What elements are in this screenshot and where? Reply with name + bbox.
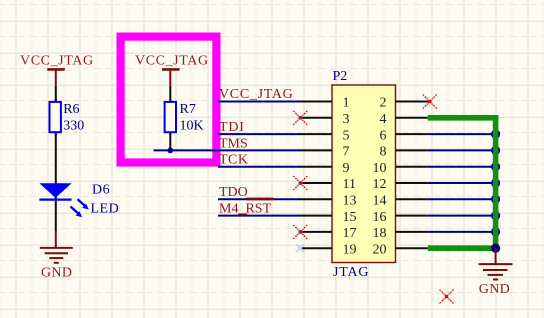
svg-text:JTAG: JTAG <box>333 265 369 280</box>
junction pin 12 bus <box>491 178 500 187</box>
junction GND bus bottom <box>491 244 500 253</box>
svg-text:TCK: TCK <box>219 153 249 168</box>
pin 9 stub <box>300 166 332 168</box>
pin 19 stub <box>296 244 332 252</box>
svg-text:11: 11 <box>343 177 356 192</box>
svg-text:GND: GND <box>41 265 72 280</box>
wire VCC_JTAG net <box>218 101 301 103</box>
no-ERC marker pin 2 <box>423 95 437 109</box>
svg-text:VCC_JTAG: VCC_JTAG <box>135 54 209 69</box>
wire pin 10 to GND bus <box>428 166 497 168</box>
svg-text:VCC_JTAG: VCC_JTAG <box>20 54 94 69</box>
svg-text:10: 10 <box>373 161 387 176</box>
wire pin 8 to GND bus <box>428 149 497 151</box>
wire pin 18 to GND bus <box>428 231 497 233</box>
svg-text:7: 7 <box>343 145 350 160</box>
pin 20 stub <box>396 247 428 249</box>
pin 13 stub <box>300 198 332 200</box>
pin 18 stub <box>396 231 428 233</box>
no-ERC marker (isolated, bottom right) <box>440 290 454 304</box>
svg-text:9: 9 <box>343 161 350 176</box>
resistor R7 <box>165 99 204 135</box>
no-ERC marker pin 17 <box>293 225 307 239</box>
junction TMS pull-up <box>167 148 173 154</box>
wire pin 16 to GND bus <box>428 215 497 217</box>
pin 6 stub <box>396 133 428 135</box>
wire TMS net <box>154 149 301 151</box>
junction pin 8 bus <box>491 146 500 155</box>
svg-text:R7: R7 <box>180 102 196 117</box>
svg-text:5: 5 <box>343 128 350 143</box>
power port VCC_JTAG (pull-up branch) <box>135 54 209 86</box>
junction pin 14 bus <box>491 195 500 204</box>
svg-text:16: 16 <box>373 210 387 225</box>
wire pin 14 to GND bus <box>428 198 497 200</box>
wire pin 4 to GND bus (green) <box>428 115 499 121</box>
pin 8 stub <box>396 149 428 151</box>
svg-text:17: 17 <box>343 226 357 241</box>
resistor R6 <box>50 99 85 135</box>
no-ERC marker pin 11 <box>293 176 307 190</box>
wire pin 20 to GND bus (green) <box>428 245 496 251</box>
svg-text:20: 20 <box>373 242 387 257</box>
junction pin 10 bus <box>491 162 500 171</box>
svg-text:TDO: TDO <box>219 185 248 200</box>
svg-text:R6: R6 <box>63 102 79 117</box>
pin 10 stub <box>396 166 428 168</box>
wire GND bus vertical (green) <box>493 115 499 248</box>
svg-text:14: 14 <box>373 194 387 209</box>
svg-text:13: 13 <box>343 194 357 209</box>
svg-text:330: 330 <box>63 119 84 134</box>
svg-text:8: 8 <box>380 145 387 160</box>
connector P2 body <box>332 69 396 280</box>
svg-text:1: 1 <box>343 96 350 111</box>
pin 14 stub <box>396 198 428 200</box>
svg-text:2: 2 <box>380 96 387 111</box>
wire R7 to TMS junction <box>169 133 171 150</box>
junction pin 6 bus <box>491 130 500 139</box>
wire TDI net <box>218 133 301 135</box>
wire pin 12 to GND bus <box>428 182 497 184</box>
highlight box (magenta selection rectangle) <box>121 37 217 163</box>
wire VCC to R6 <box>55 86 57 102</box>
pin 4 stub <box>396 117 428 119</box>
svg-text:12: 12 <box>373 177 387 192</box>
svg-text:P2: P2 <box>333 69 348 84</box>
wire M4_RST net <box>218 214 301 216</box>
pin 7 stub <box>300 149 332 151</box>
pin 5 stub <box>300 133 332 135</box>
svg-text:4: 4 <box>380 112 387 127</box>
svg-text:GND: GND <box>479 282 510 297</box>
wire R6 to D6 <box>55 133 57 184</box>
pin 11 stub <box>300 182 332 184</box>
pin 17 stub <box>300 231 332 233</box>
junction pin 16 bus <box>491 211 500 220</box>
svg-text:VCC_JTAG: VCC_JTAG <box>219 87 294 102</box>
wire TDO net <box>218 198 301 201</box>
svg-text:10K: 10K <box>180 119 204 134</box>
wire pin 6 to GND bus <box>428 133 497 135</box>
wire VCC to R7 <box>169 86 171 102</box>
svg-text:TMS: TMS <box>219 136 248 151</box>
pin 1 stub <box>300 101 332 103</box>
svg-text:3: 3 <box>343 112 350 127</box>
svg-text:D6: D6 <box>92 183 110 198</box>
svg-text:LED: LED <box>91 202 120 217</box>
junction pin 18 bus <box>491 227 500 236</box>
power port VCC_JTAG (left) <box>20 54 94 86</box>
pin 3 stub <box>300 117 332 119</box>
ground GND (right) <box>479 248 513 297</box>
pin 16 stub <box>396 215 428 217</box>
pin 15 stub <box>300 215 332 217</box>
svg-text:19: 19 <box>343 242 357 257</box>
svg-text:18: 18 <box>373 226 387 241</box>
pin 2 stub <box>396 101 430 103</box>
pin 12 stub <box>396 182 428 184</box>
svg-text:6: 6 <box>380 128 387 143</box>
wire TCK net <box>218 166 301 168</box>
ground GND (left) <box>40 231 73 280</box>
svg-text:TDI: TDI <box>219 120 245 135</box>
no-ERC marker pin 3 <box>293 111 307 125</box>
LED D6 <box>39 183 119 232</box>
svg-text:15: 15 <box>343 210 357 225</box>
